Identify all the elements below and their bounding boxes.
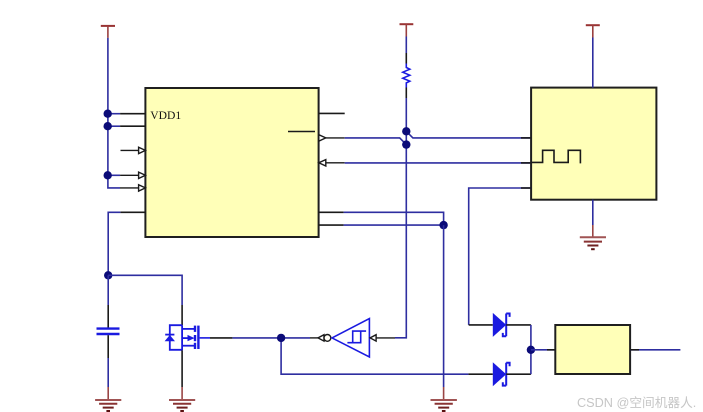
ground G3 (x=443.6) — [431, 387, 457, 411]
small block U3 — [555, 325, 630, 374]
dash graphic inside U1 — [288, 131, 315, 133]
wire MOSFET source to ground — [181, 350, 183, 387]
pin VDD1 (left, y=113.7) — [108, 113, 146, 115]
junction dot A1 (107.7,113.7) — [104, 110, 112, 118]
triangle — [332, 319, 369, 357]
svg-text:VDD1: VDD1 — [150, 109, 181, 122]
pin 2 (left, y=126.2) — [108, 125, 146, 127]
bubble — [324, 335, 331, 342]
wire inverter output to MOSFET gate — [232, 337, 310, 339]
hysteresis glyph — [347, 331, 366, 343]
pin 3 input arrow (left, y=150.4) — [121, 147, 146, 153]
gate pin — [200, 337, 210, 339]
wire from node B1 to U2 pin — [406, 131, 531, 138]
pin stub (right top, y=113.4, unconnected) — [319, 112, 345, 114]
wire pin10 right then down — [344, 212, 444, 225]
diode D2 (bottom Schottky) — [468, 362, 531, 386]
MOSFET Q1 (N-ch with body diode) — [165, 325, 210, 350]
junction dot C (443.6,225.1) — [439, 221, 447, 229]
junction dot A2 (107.7,126.2) — [104, 122, 112, 130]
wire VCC3 to U2 top — [592, 38, 594, 88]
wire pin11 to node C — [344, 224, 444, 226]
gate pin stub black — [210, 337, 232, 339]
body diode bar — [165, 334, 174, 336]
power VCC1 (top-left) — [101, 26, 115, 38]
body diode triangle — [165, 335, 175, 341]
junction dot B1 (406.3,131.3) — [402, 127, 410, 135]
watermark — [577, 392, 702, 411]
wire resistor down through jog nodes to inverter input — [405, 88, 407, 99]
junction dot A3 (107.7,175.3) — [104, 171, 112, 179]
wire U3 output — [630, 349, 680, 351]
trunk inside symbol — [181, 325, 183, 350]
pin 6 (left-bottom, y=212.3) with wire down to cap node — [108, 212, 145, 275]
output pin arrow — [310, 337, 318, 339]
resistor R1 — [403, 64, 410, 88]
wire D1 cathode down to node E — [530, 325, 532, 350]
wire pin9 to U2 — [345, 162, 531, 164]
pin 4 input arrow (left, y=175.3) — [108, 172, 146, 178]
pin 10 (right, y=212.3) — [319, 211, 344, 213]
source connect — [182, 345, 194, 347]
wire node C down to ground — [443, 225, 445, 387]
wire node E to U3 — [531, 349, 555, 351]
power VCC3 (above U2) — [586, 25, 600, 37]
wire from pin8 with jog to node B2 — [345, 138, 407, 145]
junction dot B2 (406.3,144.6) — [402, 140, 410, 148]
capacitor C1 — [97, 275, 120, 387]
bulk arrow head — [188, 335, 195, 341]
gate bar — [197, 326, 199, 349]
pin 5 input arrow (left, y=187.9) — [120, 185, 145, 191]
left IC U1 — [145, 88, 318, 237]
drain connect — [182, 328, 194, 330]
pin 9 input arrow (right, y=162.8) — [319, 160, 345, 166]
wire node F to MOSFET drain — [108, 275, 182, 305]
pin 8 output arrow (right, y=137.9) — [319, 135, 345, 141]
diode D1 (top Schottky) — [469, 313, 531, 337]
wire from anode D2 back to inverter output node D — [281, 338, 468, 374]
junction dot D (281.1,337.9) — [277, 334, 285, 342]
junction dot E (530.9,349.8) — [527, 346, 535, 354]
bulk arrow line — [182, 337, 187, 339]
power VCC2 (above resistor) — [400, 24, 414, 36]
inverter U4 (Schmitt, facing left) — [310, 319, 395, 357]
ground G2 (below Q1) — [169, 387, 195, 411]
wire U2 third pin down left side (x=468.7) — [469, 188, 531, 325]
wire VCC2 to resistor — [405, 37, 407, 54]
wire vertical left bus x=107.9 — [108, 38, 120, 188]
ground G1 (below C1) — [95, 387, 121, 411]
ground G4 (below U2) — [580, 225, 606, 249]
pin 11 (right, y=225.1) — [319, 224, 344, 226]
wire D2 cathode up to node E — [530, 350, 532, 374]
junction dot F (108.2,275.3) — [104, 271, 112, 279]
top/left/bottom outline to body diode — [170, 325, 182, 350]
right IC U2 — [531, 88, 656, 200]
wire U2 bottom to ground — [592, 200, 594, 225]
square-wave glyph inside U2 — [532, 150, 581, 163]
channel ticks — [194, 326, 196, 332]
input pin arrow — [370, 335, 376, 341]
